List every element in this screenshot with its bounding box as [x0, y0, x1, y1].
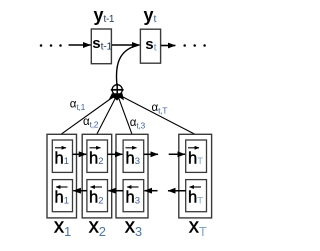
h2 backward cell box: [87, 180, 108, 212]
svg-text:αt,3: αt,3: [130, 117, 146, 130]
svg-text:αt,2: αt,2: [83, 116, 99, 129]
wire alpha t,3 from h3 to sum node: [118, 96, 132, 135]
wire arrow s_t-1 to s_t: [112, 44, 140, 46]
arrowhead cluster blob under sum node: [109, 93, 125, 100]
wire arrow h1 to h2 (forward): [73, 153, 87, 155]
context sum node (circle-plus): [111, 84, 124, 96]
svg-text:3: 3: [135, 224, 142, 239]
wire arrow out of s_t: [161, 45, 175, 47]
wire arrow h2 to h1 (backward): [73, 190, 87, 192]
encoder column 2 outer box: [82, 134, 112, 218]
svg-text:3: 3: [135, 156, 140, 167]
h1 backward label: [55, 187, 69, 206]
svg-text:1: 1: [64, 195, 69, 206]
svg-text:h: h: [55, 188, 64, 206]
h1 forward cell box: [52, 140, 72, 172]
h3 forward label: [126, 148, 140, 168]
svg-text:x: x: [89, 216, 99, 238]
wire arrow out of hT (backward): [168, 190, 186, 192]
wire alpha t,T from hT to sum node: [119, 95, 195, 135]
wire arrow h3 onward (forward): [144, 153, 158, 155]
wire curve from context node to s_t: [116, 45, 137, 84]
svg-text:x: x: [54, 216, 64, 238]
svg-text:1: 1: [64, 224, 71, 239]
svg-text:αt,1: αt,1: [70, 99, 86, 112]
wire alpha t,2 from h2 to sum node: [97, 96, 117, 135]
hT backward cell box: [186, 180, 207, 212]
wire arrow into hT (forward): [169, 153, 185, 155]
h2 backward label: [89, 187, 103, 206]
h2 forward label: [89, 148, 103, 168]
svg-text:h: h: [188, 149, 197, 167]
svg-text:αt,T: αt,T: [152, 102, 168, 115]
svg-text:T: T: [197, 195, 203, 206]
hT backward label: [188, 187, 203, 206]
h3 backward label: [126, 187, 140, 206]
svg-text:T: T: [197, 156, 203, 167]
svg-text:h: h: [126, 188, 135, 206]
svg-text:h: h: [126, 149, 135, 167]
h3 backward cell box: [123, 180, 144, 212]
encoder column T outer box: [179, 134, 212, 218]
svg-text:h: h: [55, 149, 64, 167]
h1 backward cell box: [52, 180, 72, 212]
box s_t: [140, 29, 160, 63]
h3 forward cell box: [123, 140, 144, 172]
hT forward label: [188, 148, 203, 168]
right ellipsis dots: [183, 44, 205, 47]
wire arrow into h3 (backward): [145, 190, 158, 192]
encoder column 3 outer box: [116, 134, 148, 218]
encoder column 1 outer box: [47, 134, 77, 218]
wire alpha t,1 from h1 to sum node: [61, 95, 116, 134]
svg-text:x: x: [189, 216, 199, 238]
svg-text:T: T: [199, 224, 207, 239]
svg-text:yt: yt: [144, 5, 157, 25]
svg-text:1: 1: [64, 156, 69, 167]
h2 forward cell box: [87, 140, 108, 172]
svg-text:x: x: [125, 216, 135, 238]
wire arrow h3 to h2 (backward): [108, 190, 123, 192]
svg-text:2: 2: [99, 224, 106, 239]
svg-text:2: 2: [98, 195, 103, 206]
svg-text:h: h: [89, 149, 98, 167]
box s_t-1: [91, 29, 111, 64]
hT forward cell box: [186, 140, 207, 172]
svg-text:yt-1: yt-1: [94, 5, 115, 25]
svg-text:h: h: [89, 188, 98, 206]
left ellipsis dots: [40, 44, 62, 47]
wire arrow into s_t-1: [69, 44, 91, 46]
svg-text:3: 3: [135, 195, 140, 206]
svg-text:h: h: [188, 188, 197, 206]
wire arrow h2 to h3 (forward): [108, 153, 123, 155]
h1 forward label: [55, 148, 69, 168]
svg-text:2: 2: [98, 156, 103, 167]
